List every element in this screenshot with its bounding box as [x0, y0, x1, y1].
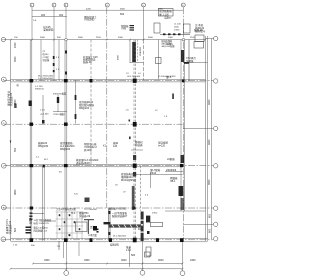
axis F stub right: [206, 38, 214, 40]
svg-text:详见结施-03: 详见结施-03: [9, 92, 13, 106]
svg-text:TL1: TL1: [71, 212, 76, 215]
wall x109 double: [59, 209, 110, 251]
axis C horizontal: [4, 165, 213, 167]
svg-text:通长筋2Φ18: 通长筋2Φ18: [76, 161, 90, 165]
short line y211 right: [165, 210, 206, 212]
wall x189: [188, 40, 190, 81]
hatch cluster above band x130: [130, 25, 135, 31]
svg-text:2Φ16: 2Φ16: [174, 29, 180, 32]
small texts near x127 y72: [126, 73, 159, 139]
svg-text:600: 600: [14, 227, 17, 232]
svg-text:TL2 250x300: TL2 250x300: [84, 209, 98, 211]
bottom dim texts: [44, 259, 196, 262]
cluster x83 y57: [83, 55, 98, 64]
svg-text:YKB: YKB: [121, 28, 126, 31]
vertical wall x37: [40, 40, 42, 81]
columns on axis D: [30, 122, 137, 127]
text row above band E right: [127, 75, 176, 78]
svg-text:详图集: 详图集: [186, 59, 194, 63]
svg-text:1 2.5: 1 2.5: [40, 110, 46, 112]
svg-text:结施-08: 结施-08: [194, 28, 203, 32]
svg-text:预制板YKB3362: 预制板YKB3362: [109, 207, 128, 211]
svg-text:MU10砖M5浆: MU10砖M5浆: [121, 178, 137, 182]
svg-text:4800: 4800: [118, 54, 120, 60]
right axis D line: [183, 128, 213, 130]
text cluster x122: [121, 24, 129, 31]
toilet room grid: [56, 212, 84, 239]
stair well lines top: [129, 40, 131, 63]
vertical axis 1: [31, 7, 33, 39]
axis A horizontal: [4, 239, 213, 241]
svg-text:h=120: h=120: [158, 145, 166, 148]
svg-text:剖面1-1: 剖面1-1: [28, 215, 32, 224]
right margin block: [194, 28, 203, 32]
hatched band mid bottom: [109, 224, 141, 226]
svg-text:2400: 2400: [168, 37, 174, 39]
text column x42-50: [43, 51, 50, 62]
bottom dim line 2: [11, 268, 183, 270]
svg-text:3900: 3900: [208, 179, 211, 185]
boxed title top right: [159, 9, 174, 17]
svg-text:500: 500: [131, 254, 136, 257]
svg-text:2100: 2100: [96, 37, 102, 39]
center cluster: [79, 100, 95, 110]
svg-text:详结施: 详结施: [135, 143, 143, 147]
column on axis B: [30, 207, 33, 210]
svg-text:500: 500: [14, 147, 17, 152]
grid circles bottom: [64, 270, 185, 275]
text left dims vertical: [14, 42, 17, 232]
stair room texts: [53, 92, 67, 116]
svg-text:600: 600: [120, 13, 125, 16]
dim ticks axis F: [10, 39, 12, 41]
vertical axis 6: [182, 7, 184, 241]
grid circles right: [214, 36, 218, 241]
vertical axis 4: [106, 7, 108, 208]
grid circles left: [1, 37, 6, 241]
circle labels: [2, 5, 184, 241]
svg-text:3800: 3800: [14, 189, 17, 195]
svg-text:YKB3962: YKB3962: [140, 46, 142, 56]
short line y62.5 topright: [183, 62, 208, 64]
svg-text:3600: 3600: [120, 9, 126, 11]
dim text row above axis F: [14, 37, 196, 39]
ticks on x53.5: [53, 56, 55, 72]
svg-text:3600: 3600: [78, 37, 84, 39]
columns on axis A: [30, 238, 184, 243]
svg-text:详见结施-02: 详见结施-02: [8, 220, 12, 234]
svg-text:L1 240: L1 240: [174, 24, 181, 26]
grid circles top: [30, 3, 185, 7]
right of band y162: [150, 168, 161, 175]
svg-text:x400: x400: [174, 27, 180, 29]
svg-text:图 1:100: 图 1:100: [159, 12, 169, 16]
D2 tile clusters: [68, 211, 91, 237]
L wall toilet: [84, 220, 94, 234]
svg-text:600: 600: [209, 228, 212, 233]
cluster x166 y40: [161, 39, 175, 48]
svg-text:Φ8@180: Φ8@180: [38, 145, 49, 148]
axis D horizontal: [4, 123, 183, 125]
svg-text:3000: 3000: [118, 37, 124, 39]
svg-text:3000: 3000: [121, 259, 127, 262]
svg-text:400: 400: [41, 14, 46, 17]
svg-text:400: 400: [59, 14, 64, 17]
svg-text:▲-0.450: ▲-0.450: [40, 113, 49, 116]
svg-text:配筋详结施07: 配筋详结施07: [112, 214, 128, 218]
top connector line: [32, 9, 183, 11]
svg-text:DL-1: DL-1: [138, 228, 144, 231]
right plan edge double: [205, 36, 207, 241]
svg-text:2400: 2400: [190, 259, 196, 262]
svg-text:Φ8@200: Φ8@200: [60, 148, 71, 151]
axis F line: [4, 39, 206, 41]
svg-text:DL1 300x500: DL1 300x500: [113, 236, 127, 238]
svg-text:3900: 3900: [158, 9, 164, 11]
vertical wall x58 stair: [57, 95, 59, 112]
axis E horizontal: [4, 80, 213, 82]
hatch fill of band: [109, 225, 141, 228]
top dim line short: [32, 16, 67, 18]
svg-text:3300: 3300: [44, 259, 50, 262]
svg-text:1:12: 1:12: [126, 249, 131, 252]
stair room wall: [53, 111, 67, 113]
svg-text:120: 120: [113, 145, 118, 148]
leader line y150: [131, 149, 143, 151]
leaders from band: [63, 242, 65, 258]
svg-text:YKB3962: YKB3962: [84, 19, 95, 22]
cluster x36-50: [34, 218, 52, 233]
svg-text:3600: 3600: [148, 37, 154, 39]
arrow left x11: [10, 141, 12, 144]
svg-text:GL1 240x300: GL1 240x300: [127, 76, 141, 78]
bottom dim line 1: [33, 263, 183, 265]
svg-text:结施-05: 结施-05: [83, 60, 92, 64]
svg-text:1200: 1200: [167, 43, 173, 46]
svg-text:Φ8@200: Φ8@200: [79, 107, 90, 110]
small texts near axis C left: [17, 83, 49, 161]
svg-text:3000: 3000: [158, 259, 164, 262]
leader x129.5 bottom: [129, 247, 131, 267]
texts mid lower: [59, 172, 126, 196]
beam line mid right: [136, 174, 183, 176]
svg-text:2Φ12: 2Φ12: [152, 212, 158, 215]
svg-text:共12块: 共12块: [84, 148, 92, 152]
svg-text:2Φ2Φ2Φ: 2Φ2Φ2Φ: [166, 169, 176, 172]
columns on axis C: [30, 164, 184, 168]
short line y171.5 right: [165, 171, 183, 173]
texts top left cluster: [43, 25, 54, 32]
beam band C double: [11, 164, 183, 166]
vertical wall x75.5: [75, 80, 77, 124]
svg-text:L6配筋: L6配筋: [167, 157, 175, 161]
mid right texts: [166, 75, 212, 233]
svg-text:梁L5: 梁L5: [166, 75, 172, 79]
right axis B2 line: [183, 223, 213, 225]
vertical wall x59: [58, 40, 60, 80]
axis B horizontal: [4, 207, 213, 209]
left mid details x43: [42, 95, 44, 124]
svg-text:600: 600: [209, 213, 212, 218]
svg-text:XB-1: XB-1: [170, 180, 176, 183]
svg-text:梁板配筋: 梁板配筋: [43, 28, 54, 32]
svg-text:2Φ14: 2Φ14: [150, 172, 157, 175]
vertical axis 2: [53, 7, 55, 81]
left bottom vertical cluster: [5, 219, 12, 235]
cluster y172: [121, 172, 137, 182]
columns on axis E: [30, 79, 185, 83]
svg-text:Φ8@150: Φ8@150: [35, 88, 45, 91]
svg-text:3300: 3300: [40, 37, 46, 39]
right dim line: [211, 39, 213, 240]
svg-text:C-2 1800x1800: C-2 1800x1800: [38, 78, 54, 80]
beam band E double: [11, 78, 206, 80]
svg-text:详结施-09: 详结施-09: [79, 214, 91, 218]
dark marks left bottom: [26, 213, 33, 234]
right clusters: [166, 157, 178, 183]
vertical axis 3: [65, 7, 67, 39]
svg-text:3500: 3500: [14, 56, 17, 62]
top dim texts: [86, 9, 164, 11]
dark vertical band top x131: [132, 42, 184, 241]
svg-text:4200: 4200: [208, 99, 211, 105]
D3 tile clusters: [109, 207, 159, 258]
text cluster top mid: [84, 15, 97, 22]
svg-text:1500: 1500: [14, 42, 17, 48]
texts right of top band: [167, 43, 196, 63]
rect detail x155 y57: [156, 58, 162, 64]
row y141 clusters: [38, 140, 169, 152]
svg-text:3300: 3300: [84, 259, 90, 262]
vertical wall x91: [90, 40, 92, 166]
texts above axis C: [76, 158, 99, 165]
axis5 lower stem: [143, 40, 145, 80]
rect detail x154: [154, 23, 160, 33]
beam line y34.3: [160, 33, 190, 35]
vertical beam x43 lower: [42, 166, 44, 241]
vertical axis 5: [143, 7, 145, 39]
top right small clusters: [174, 24, 181, 32]
dim ticks bottom: [32, 263, 34, 265]
svg-text:2100: 2100: [190, 37, 196, 39]
svg-text:4200: 4200: [208, 139, 211, 145]
dark blob x84 y197: [85, 198, 90, 203]
svg-text:4200: 4200: [86, 9, 92, 11]
vertical dashed beam x134.5: [133, 40, 135, 241]
beam band A double: [11, 238, 208, 240]
left big text cluster: [6, 90, 13, 106]
left plan edge: [10, 40, 12, 241]
